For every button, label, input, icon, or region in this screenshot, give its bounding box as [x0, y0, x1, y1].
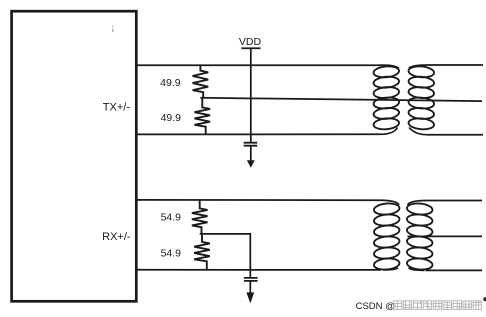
wire TX+ (IC to transformer T1 primary top) — [137, 65, 399, 68]
wire TX secondary top to right edge — [409, 65, 483, 69]
ground (arrow) below C1 — [250, 146, 252, 161]
wire RX- (IC to transformer T2 primary bottom) — [137, 269, 381, 271]
resistor R1 49.9 — [193, 65, 209, 98]
resistor R4 54.9 — [194, 234, 210, 270]
VDD power rail bar — [241, 47, 260, 49]
watermark dark mark top-right — [483, 297, 486, 301]
transformer T2 secondary winding (right coil) — [406, 202, 432, 270]
svg-text:54.9: 54.9 — [161, 248, 182, 260]
wire TX- (IC to transformer T1 primary bottom) — [137, 133, 381, 135]
capacitor C2 — [244, 278, 258, 281]
svg-text:49.9: 49.9 — [161, 112, 182, 124]
transformer T2 primary winding (left coil) — [373, 202, 399, 270]
svg-text:54.9: 54.9 — [161, 212, 182, 224]
svg-text:49.9: 49.9 — [160, 77, 181, 89]
wire TX center tap (node between R1/R2 to T1 primary center, crossing to right) — [200, 98, 482, 101]
wire RX center tap to C2 (right then down) — [200, 234, 251, 277]
resistor R3 54.9 — [192, 200, 208, 234]
wire T2 primary bottom exit sweep — [383, 268, 398, 270]
wire RX secondary top to right edge — [408, 200, 482, 204]
transformer T1 primary winding (left coil) — [373, 65, 399, 130]
watermark CJK glyph blocks — [393, 301, 481, 310]
svg-text:TX+/-: TX+/- — [103, 101, 131, 113]
wire RX secondary bottom to right edge — [426, 269, 483, 271]
wire TX secondary bottom to right edge — [427, 134, 483, 136]
transformer T1 secondary winding (right coil) — [408, 65, 434, 130]
ground (arrow) below C2 — [249, 281, 251, 293]
svg-text:RX+/-: RX+/- — [102, 231, 131, 243]
svg-text:VDD: VDD — [239, 36, 262, 48]
wire T2 secondary bottom exit sweep — [409, 268, 425, 271]
wire RX+ (IC to transformer T2 primary top) — [137, 200, 399, 205]
capacitor C1 — [244, 143, 258, 146]
svg-text:CSDN @: CSDN @ — [356, 301, 395, 312]
wire T1 secondary bottom exit sweep — [409, 128, 427, 135]
wire VDD stem down through TX pairs to C1 — [250, 48, 252, 142]
IC U1 (PHY device box) — [12, 11, 137, 301]
faint mark i inside IC — [112, 26, 114, 32]
wire T1 primary bottom exit sweep — [381, 128, 398, 135]
resistor R2 49.9 — [195, 98, 211, 135]
wire T2 secondary center tap to right edge — [408, 235, 483, 237]
